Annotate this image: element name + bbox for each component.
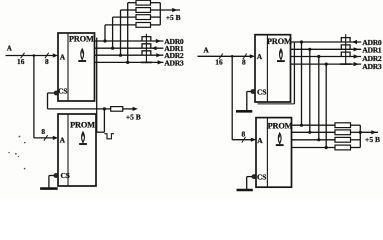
connector X1 contact on ADR2 <box>142 51 151 55</box>
svg-text:A: A <box>257 136 263 145</box>
junction +5 B tap <box>359 131 362 134</box>
svg-text:PROM: PROM <box>69 35 94 44</box>
ground (U4 CS) <box>237 189 253 192</box>
wire strobe bottom link <box>97 131 105 133</box>
bus width slash 8 (right top) <box>243 54 247 60</box>
PROM U3 function symbol (diamond) <box>279 49 282 60</box>
junction ADR0 link top <box>300 40 303 43</box>
wire U4 output Q3 to R9 <box>292 147 335 149</box>
resistor R5 (CS pull-up) <box>111 107 123 112</box>
wire link ADR0 to U4 output Q0 <box>301 42 303 125</box>
wire auxiliary vertical from U1 output side <box>96 38 98 133</box>
PROM U2 function symbol (diamond) <box>82 132 85 143</box>
wire common pull-up bus (left) <box>151 2 161 4</box>
junction ADR3 link bottom <box>325 146 328 149</box>
wire R2 drop to ADR2 line <box>120 10 122 55</box>
wire output Q2 of U3 (ADR2 line) <box>291 56 362 58</box>
wire R2 left stub <box>121 9 137 11</box>
PROM U3 (right top) body <box>255 35 291 102</box>
pull-up resistor R1 (top) <box>136 0 151 5</box>
PROM U3 input field divider <box>266 35 268 102</box>
bus width slash 16 (left) <box>21 53 25 59</box>
wire auxiliary vertical at U3 output side <box>293 42 295 104</box>
connector X2 contact on ADR1 <box>341 45 350 49</box>
wire U4 output Q0 to R6 <box>292 124 335 126</box>
connector X2 base bar on ADR3 <box>340 63 351 65</box>
svg-text:+5 B: +5 B <box>166 13 181 22</box>
svg-text:CS: CS <box>60 171 69 180</box>
connector X2 contact on ADR2 <box>341 52 350 56</box>
pull-up resistor R2 <box>136 8 151 13</box>
junction strobe node <box>103 107 106 110</box>
junction ADR2 link top <box>317 55 320 58</box>
wire output Q3 of U3 (ADR3 line) <box>291 63 362 65</box>
PROM U4 function symbol (diamond) <box>278 133 281 144</box>
PROM U4 CS inversion bubble <box>252 175 256 179</box>
wire output Q1 of U1 (ADR1 line) <box>95 47 164 49</box>
PROM U1 CS inversion bubble <box>54 91 58 95</box>
wire R3 left stub <box>113 16 136 18</box>
scan speckles <box>8 136 25 170</box>
junction ADR1 link top <box>308 48 311 51</box>
wire auxiliary horizontal under U3 <box>258 103 295 105</box>
svg-text:8: 8 <box>242 129 246 138</box>
pull-up resistor R6 <box>335 123 351 128</box>
connector X1 contact on ADR0 <box>142 37 151 41</box>
ground (U2 CS) <box>40 187 58 190</box>
wire R3 drop to ADR1 line <box>112 17 114 48</box>
PROM U4 (right bottom) body <box>256 118 292 188</box>
svg-text:A: A <box>60 52 66 61</box>
PROM U3 CS inversion bubble <box>251 90 255 94</box>
wire R4 drop to ADR0 line <box>104 25 106 41</box>
connector X1 pole (left) <box>145 34 147 63</box>
svg-text:8: 8 <box>242 57 246 66</box>
wire +5 B feed (right) <box>360 131 378 133</box>
svg-text:CS: CS <box>257 88 266 97</box>
svg-text:CS: CS <box>257 172 266 181</box>
wire vertical drop to U4 A input <box>231 56 233 139</box>
wire R1 drop to ADR3 line <box>127 3 129 63</box>
PROM U1 (left top) body <box>58 33 95 101</box>
bus width slash 8 (right bottom) <box>242 137 246 143</box>
pull-up resistor R8 <box>335 137 351 142</box>
svg-text:PROM: PROM <box>268 121 293 130</box>
PROM U2 input field divider <box>67 114 69 186</box>
junction R2/ADR2 <box>119 54 122 57</box>
wire U4 output Q2 to R8 <box>292 139 335 141</box>
junction ADR3 link top <box>325 63 328 66</box>
bus width slash 8 (left top) <box>45 53 49 59</box>
wire output Q2 of U1 (ADR2 line) <box>95 54 164 56</box>
PROM U4 input field divider <box>266 118 268 188</box>
junction ADR2 link bottom <box>317 138 320 141</box>
wire into U4 A pin <box>232 139 251 141</box>
svg-text:+5 B: +5 B <box>126 113 141 122</box>
PROM U2 CS inversion bubble <box>54 174 58 178</box>
connector X2 contact on ADR0 <box>341 38 350 42</box>
connector X1 base bar on ADR3 <box>141 61 152 63</box>
svg-text:8: 8 <box>45 57 49 66</box>
connector X1 contact on ADR1 <box>142 44 151 48</box>
wire link ADR3 to U4 output Q3 <box>325 64 327 147</box>
junction on left input bus <box>33 54 36 57</box>
wire vertical drop to U2 A input <box>33 56 35 138</box>
junction on right input bus <box>231 55 234 58</box>
PROM U1 input field divider <box>67 33 69 101</box>
wire U3 CS to ground <box>247 91 251 93</box>
wire common pull-up bus (right) <box>351 124 361 126</box>
svg-text:+5 B: +5 B <box>365 135 380 144</box>
wire U2 CS to ground <box>49 175 54 177</box>
junction R3/ADR1 <box>111 47 114 50</box>
svg-text:ADR3: ADR3 <box>362 62 382 71</box>
wire R1 left stub <box>128 2 136 4</box>
wire left input into A pin of U1 <box>53 53 58 57</box>
svg-text:16: 16 <box>17 57 25 66</box>
svg-text:A: A <box>203 46 209 55</box>
svg-text:A: A <box>257 52 263 61</box>
wire output Q0 of U1 (ADR0 line) <box>95 40 164 42</box>
bus width slash 16 (right) <box>219 54 223 60</box>
pull-up resistor R4 (bottom) <box>136 23 151 28</box>
wire U1 CS to pull-up / strobe node <box>48 92 55 94</box>
ground (U3 CS) <box>236 110 252 113</box>
connector X2 pole (right) <box>345 34 347 64</box>
svg-text:A: A <box>60 135 66 144</box>
PROM U1 function symbol (diamond) <box>81 49 84 60</box>
wire link ADR2 to U4 output Q2 <box>318 57 320 140</box>
junction R1/ADR3 <box>126 61 129 64</box>
wire R4 left stub <box>105 24 136 26</box>
junction ADR0 link bottom <box>300 124 303 127</box>
svg-text:CS: CS <box>58 87 67 96</box>
wire +5 B feed (left top) <box>160 9 180 11</box>
svg-text:A: A <box>7 46 12 53</box>
wire U4 CS to ground <box>247 176 252 178</box>
bus width slash 8 (left bottom) <box>44 135 48 141</box>
svg-text:16: 16 <box>215 57 223 66</box>
wire U4 output Q1 to R7 <box>292 131 335 133</box>
svg-text:ADR3: ADR3 <box>164 58 184 67</box>
wire output Q0 of U3 (ADR0 line) <box>291 41 362 43</box>
wire into U2 A pin <box>34 137 54 139</box>
wire output Q1 of U3 (ADR1 line) <box>291 48 362 50</box>
junction ADR1 link bottom <box>308 131 311 134</box>
svg-text:PROM: PROM <box>70 121 95 130</box>
PROM U2 (left bottom) body <box>58 114 96 186</box>
strobe pulse symbol (negative pulse) <box>104 134 114 139</box>
svg-text:PROM: PROM <box>267 37 292 46</box>
wire link ADR1 to U4 output Q1 <box>309 49 311 132</box>
pull-up resistor R3 <box>136 15 151 20</box>
pull-up resistor R7 <box>335 130 351 135</box>
wire strobe drop <box>103 109 105 132</box>
wire R5 to +5 B arrow <box>123 108 134 110</box>
junction R4/ADR0 <box>103 39 106 42</box>
svg-text:8: 8 <box>41 127 45 136</box>
wire output Q3 of U1 (ADR3 line) <box>95 61 164 63</box>
pull-up resistor R9 <box>335 145 351 150</box>
